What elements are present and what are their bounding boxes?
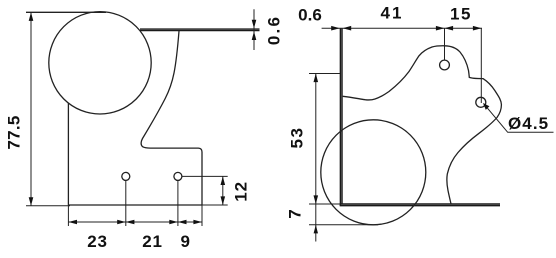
dim 7: extension at circle bottom: [309, 224, 378, 226]
right view: face outline: [343, 46, 502, 204]
arrow dia4.5 leader: [483, 103, 489, 110]
arrow 53 bottom: [314, 195, 319, 204]
arrow 9 left: [178, 220, 187, 225]
right view: hole A: [440, 60, 450, 70]
left view: flange band top line: [140, 28, 260, 30]
left view: flange band bottom line: [140, 30, 260, 32]
arrow 0.6 right view left: [331, 26, 340, 31]
right view: left flange band line a: [339, 28, 341, 206]
arrow 53 top: [314, 74, 319, 83]
arrow 0.6 left view lower: [252, 31, 257, 40]
svg-text:12: 12: [232, 181, 251, 202]
svg-text:0.6: 0.6: [265, 15, 284, 45]
right view: hole B: [476, 97, 486, 107]
arrow 12 bottom: [221, 196, 226, 205]
dim 77.5: vertical dimension line: [30, 12, 32, 206]
arrow 9 right: [193, 220, 202, 225]
arrow 0.6 right view right: [343, 26, 352, 31]
bottom dims: dimension line: [68, 221, 202, 223]
dim 12: extension line from bottom edge: [202, 204, 228, 206]
arrow 23 right: [117, 220, 126, 225]
arrow 12 top: [221, 176, 226, 185]
left view: left edge: [67, 103, 69, 205]
arrow 0.6 left view upper: [252, 20, 257, 29]
dim 12: vertical dimension line: [222, 176, 224, 205]
svg-text:77.5: 77.5: [5, 115, 24, 149]
dim 53: top extension line: [309, 73, 340, 75]
right view: big circle: [321, 120, 426, 225]
left view: bottom edge: [68, 204, 202, 206]
dim 77.5: bottom extension line: [26, 205, 70, 207]
right view: bottom flange band line b: [340, 205, 500, 207]
right view: bottom flange band line a: [340, 203, 500, 205]
right top dims: dimension line: [322, 27, 482, 29]
right top dims: extension to hole A: [444, 28, 446, 60]
arrow 15 left end: [445, 26, 454, 31]
arrow 41 right end: [436, 26, 445, 31]
bottom dims: right extension line: [201, 205, 203, 226]
arrow 15 right end: [473, 26, 482, 31]
arrow 23 left: [68, 220, 77, 225]
right top dims: extension to hole B: [480, 28, 482, 103]
svg-text:0.6: 0.6: [298, 6, 322, 25]
arrow 77.5 bottom: [29, 197, 34, 206]
svg-text:7: 7: [286, 209, 305, 218]
dim 0.6 left view: vertical dimension line: [253, 9, 255, 50]
arrow 77.5 top: [29, 12, 34, 21]
bottom dims: left extension line: [67, 205, 69, 226]
svg-text:41: 41: [381, 4, 404, 23]
left view: top edge line: [26, 11, 106, 13]
dim 7: extension at flange: [309, 203, 340, 205]
dia 4.5 leader line: [484, 104, 554, 133]
dim 12: extension line from hole 2: [182, 175, 228, 177]
arrow 21 right: [169, 220, 178, 225]
left view: hole 2: [174, 172, 182, 180]
svg-text:21: 21: [142, 232, 163, 251]
svg-text:15: 15: [450, 5, 472, 24]
svg-text:53: 53: [288, 127, 307, 149]
left view: S-curve outline: [141, 31, 202, 205]
svg-text:9: 9: [180, 232, 189, 251]
left view: hole 1: [122, 172, 130, 180]
bottom dims: hole 1 leader: [125, 180, 127, 226]
dim 53+7: vertical dimension line: [315, 74, 317, 242]
arrow 21 left: [126, 220, 135, 225]
svg-text:Ø4.5: Ø4.5: [508, 114, 549, 133]
svg-text:23: 23: [87, 232, 108, 251]
left view: big circle: [49, 12, 151, 114]
right view: left flange band line b: [341, 28, 343, 204]
arrow 7 bottom: [314, 225, 318, 234]
bottom dims: hole 2 leader: [177, 180, 179, 226]
